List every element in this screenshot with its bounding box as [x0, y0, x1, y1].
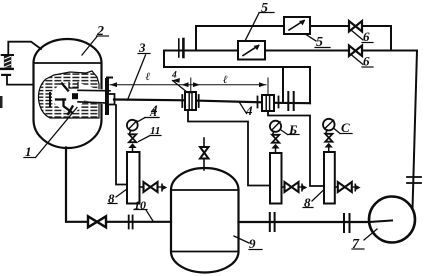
impulse drop left (wire): [282, 67, 284, 103]
svg-text:9: 9: [249, 236, 256, 251]
level gauge top pipe (wire): [8, 42, 41, 55]
nozzle 4a right flange plate: [198, 95, 200, 107]
flange pair on suction line (right): [343, 214, 345, 232]
dimension arrowhead at vessel flange: [110, 82, 117, 87]
pipe 3 segment vessel to nozzle 4a (wire): [114, 98, 185, 101]
label 4b: [245, 103, 253, 118]
label C: [341, 120, 350, 135]
nozzle 4b body: [262, 95, 274, 111]
label 1: [25, 144, 32, 159]
vessel V2 shell: [34, 39, 102, 148]
wire valve 6a to corner: [362, 25, 391, 27]
tank 9 safety valve: [203, 159, 205, 171]
leader of label 8 (A): [116, 189, 127, 197]
dimension arrowhead right of nozzle 4a: [193, 82, 200, 87]
arrowhead on leader of label 4a: [172, 78, 181, 83]
receiver tank 9 shell: [171, 168, 239, 273]
vessel V2 outlet flange plate: [105, 78, 109, 115]
dimension line l: [110, 78, 268, 95]
level gauge glass (hatched body): [4, 56, 11, 68]
wire U1 to valve 6b: [265, 50, 349, 52]
level gauge bottom pipe (wire): [7, 76, 34, 85]
drum meter 1 outlet band through wall: [96, 91, 113, 104]
gauge B: [270, 121, 281, 132]
leader of label 9: [234, 236, 249, 243]
impulse header line (wire): [164, 51, 310, 68]
label 5 lower: [316, 35, 323, 50]
label 5 upper: [261, 1, 268, 16]
label 8 (C): [304, 195, 311, 210]
label 6a: [363, 29, 370, 44]
suction line tank 9 to blower 7 (wire): [239, 221, 370, 223]
instrument line to U1 (wire): [164, 50, 237, 52]
impulse tap nozzle 4b to column C (wire): [268, 111, 324, 186]
label A: [149, 108, 157, 119]
svg-text:3: 3: [138, 40, 146, 55]
nozzle 4a left flange plate: [181, 95, 183, 107]
leader of label 7: [364, 229, 377, 240]
label 6b: [363, 54, 370, 69]
nozzle 4a body: [185, 92, 196, 110]
svg-text:С: С: [341, 120, 350, 135]
vessel V2 outlet flange box: [108, 94, 115, 105]
flange pair on suction line (left): [269, 213, 271, 231]
svg-text:А: А: [149, 108, 157, 119]
leader of label 5 lower: [306, 35, 316, 42]
svg-text:4: 4: [171, 71, 177, 81]
flange pair on bottom line: [128, 216, 130, 229]
wire corner down to lower line: [390, 26, 392, 51]
valve 10: [88, 216, 106, 227]
label 8 (A): [108, 191, 115, 206]
shutoff valve under gauge A: [129, 134, 136, 142]
nozzle 4b right flange plate: [278, 97, 280, 108]
differential manometer U2 (box 5 upper): [284, 17, 310, 34]
dimension text l (left): [146, 71, 151, 83]
flange pair on downcomer: [407, 176, 421, 178]
drain valve column C with vent arrow: [335, 186, 338, 188]
svg-text:8: 8: [108, 191, 115, 206]
level gauge lower flange: [1, 68, 13, 70]
wire valve 6b to right corner: [362, 50, 417, 52]
leader of label 2: [82, 37, 97, 56]
svg-text:Б: Б: [288, 122, 297, 137]
leader of label B: [281, 130, 288, 135]
leader of label 4b: [240, 103, 247, 114]
shutoff valve under gauge C: [325, 134, 332, 142]
svg-text:1: 1: [25, 144, 32, 159]
receiver tank 9 lower seam: [171, 251, 239, 253]
flange pair on instrument line: [178, 39, 180, 57]
svg-text:4: 4: [245, 103, 253, 118]
pipe 3 segment after nozzle 4b (wire): [274, 102, 310, 105]
right downcomer to blower (wire): [413, 51, 418, 210]
svg-text:ℓ: ℓ: [223, 74, 228, 86]
drain valve column B with vent arrow: [282, 186, 285, 188]
shutoff valve under gauge B: [272, 135, 279, 143]
drum meter 1 hub marks: [50, 84, 78, 115]
leader of label A: [138, 118, 159, 122]
label 10: [134, 198, 146, 212]
svg-text:2: 2: [96, 24, 104, 39]
blower 7 shaft stub: [369, 221, 392, 223]
leader of label 8 (C): [312, 191, 323, 202]
leader of label 5 upper: [245, 13, 259, 41]
label 11: [150, 125, 160, 137]
nozzle 4b left flange plate: [257, 97, 259, 108]
svg-text:7: 7: [352, 237, 360, 252]
drain valve column A with vent arrow: [140, 186, 144, 188]
pipe 3 segment between nozzles (wire): [196, 101, 262, 103]
vessel V2 seam line: [34, 62, 102, 64]
label 9: [249, 236, 256, 251]
drum meter 1 slot edges: [69, 83, 78, 89]
receiver tank 9 upper seam: [171, 189, 239, 191]
wire U2 to valve 6a: [310, 25, 349, 27]
level gauge foot flange: [2, 74, 10, 76]
impulse tap nozzle 4a to column B (wire): [188, 110, 270, 186]
dimension arrowhead left of nozzle 4a: [182, 82, 189, 87]
flange pair on pipe after nozzle 4b: [287, 92, 289, 110]
leader of label C: [334, 129, 340, 134]
valve 6a: [349, 21, 362, 32]
label 2: [96, 24, 104, 39]
leader of label 4a: [173, 81, 188, 93]
dimension text l (right): [223, 74, 228, 86]
leader of label 6b: [351, 55, 363, 65]
drum meter 1 shaft cone lower edge: [78, 102, 110, 103]
svg-text:8: 8: [304, 195, 311, 210]
level gauge upper flange: [2, 54, 13, 56]
piezometer tube 8 (column A): [127, 152, 140, 204]
svg-text:5: 5: [316, 35, 323, 50]
scan edge mark: [0, 96, 3, 108]
liquid (hatched) inside vessel V2: [38, 71, 99, 118]
upper instrument line (wire): [196, 25, 283, 27]
drum meter 1 shaft cone upper edge: [78, 89, 110, 92]
label 7: [352, 237, 360, 252]
gauge C: [323, 119, 335, 131]
drum meter 1 cavity (white cutout): [52, 83, 104, 114]
vessel V2 bottom outlet line (wire): [66, 148, 171, 222]
label underlines: [24, 13, 373, 250]
svg-text:ℓ: ℓ: [146, 71, 151, 83]
leader of label 3: [128, 55, 146, 100]
valve 6b: [349, 46, 362, 57]
svg-text:6: 6: [363, 29, 370, 44]
svg-text:11: 11: [150, 125, 160, 137]
leader of label 10: [146, 210, 153, 221]
dimension arrowhead at nozzle 4b: [259, 82, 266, 87]
label 4a: [171, 71, 177, 81]
label 3: [138, 40, 146, 55]
impulse drop right (wire): [309, 67, 311, 103]
svg-text:10: 10: [134, 198, 146, 212]
differential manometer U1 (box 5 lower): [238, 41, 265, 60]
blower 7: [369, 197, 415, 243]
label B: [288, 122, 297, 137]
svg-text:6: 6: [363, 54, 370, 69]
label 4 on pipe: [150, 102, 158, 117]
impulse tap to column A (wire): [116, 105, 127, 185]
leader of label 1: [36, 108, 78, 158]
manometer 11 (gauge A): [127, 120, 138, 131]
piezometer tube 8 (column B): [270, 153, 282, 204]
leader of label 6a: [351, 30, 363, 40]
piezometer tube 8 (column C): [324, 152, 335, 204]
riser to upper instrument line (wire): [195, 26, 197, 51]
svg-text:5: 5: [261, 1, 268, 16]
leader of label 11: [139, 136, 151, 142]
